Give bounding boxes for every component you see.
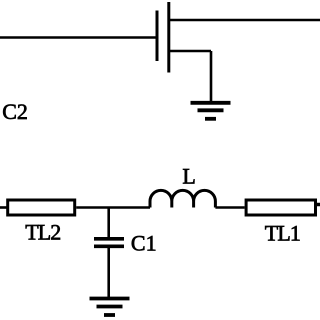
svg-text:L: L bbox=[182, 164, 195, 189]
svg-text:C1: C1 bbox=[131, 230, 157, 255]
svg-text:TL1: TL1 bbox=[265, 220, 300, 245]
svg-text:TL2: TL2 bbox=[25, 219, 60, 244]
svg-text:C2: C2 bbox=[2, 99, 28, 124]
